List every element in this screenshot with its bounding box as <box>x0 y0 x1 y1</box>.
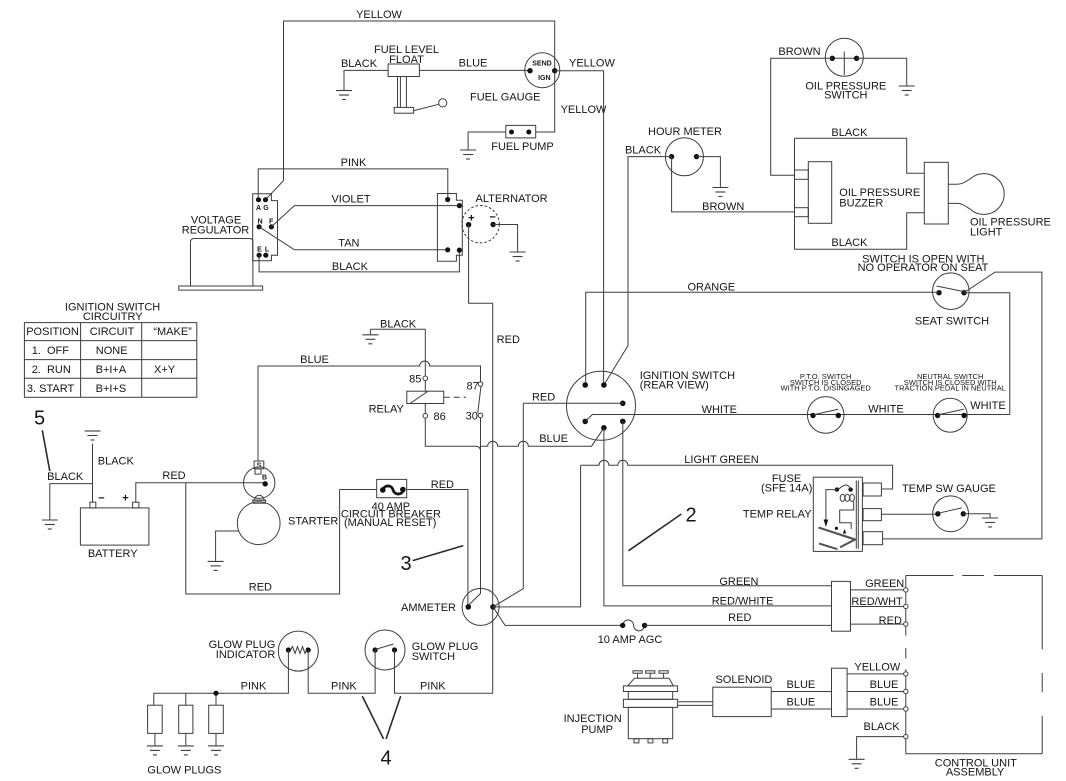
svg-text:BLACK: BLACK <box>341 58 378 70</box>
svg-text:1. OFF: 1. OFF <box>32 345 70 357</box>
svg-text:E: E <box>257 247 262 254</box>
svg-text:BLACK: BLACK <box>47 471 84 483</box>
svg-text:2. RUN: 2. RUN <box>32 364 71 376</box>
svg-text:A: A <box>256 205 261 212</box>
svg-text:POSITION: POSITION <box>26 326 79 338</box>
svg-text:BLACK: BLACK <box>332 261 369 273</box>
svg-text:−: − <box>489 212 495 224</box>
svg-text:LIGHT GREEN: LIGHT GREEN <box>684 454 758 466</box>
svg-text:WHITE: WHITE <box>970 400 1005 412</box>
svg-text:NONE: NONE <box>96 345 128 357</box>
svg-text:RELAY: RELAY <box>369 403 405 415</box>
svg-text:N: N <box>258 218 263 225</box>
svg-text:PINK: PINK <box>420 680 446 692</box>
svg-text:RED: RED <box>497 334 520 346</box>
svg-text:TAN: TAN <box>338 237 359 249</box>
svg-text:AMMETER: AMMETER <box>401 602 456 614</box>
svg-text:85: 85 <box>409 373 421 385</box>
svg-text:YELLOW: YELLOW <box>569 57 615 69</box>
svg-text:87: 87 <box>466 381 478 393</box>
svg-text:BLUE: BLUE <box>787 697 816 709</box>
svg-text:B+I+S: B+I+S <box>96 383 127 395</box>
svg-text:PINK: PINK <box>331 680 357 692</box>
svg-text:30: 30 <box>466 411 478 423</box>
svg-text:GREEN: GREEN <box>865 578 904 590</box>
svg-text:RED: RED <box>532 392 555 404</box>
svg-text:RED: RED <box>431 479 454 491</box>
svg-text:ORANGE: ORANGE <box>687 281 735 293</box>
svg-text:−: − <box>98 493 104 505</box>
svg-text:SWITCH: SWITCH <box>412 651 455 663</box>
svg-text:LIGHT: LIGHT <box>970 226 1003 238</box>
svg-text:WHITE: WHITE <box>702 404 737 416</box>
svg-text:BLUE: BLUE <box>870 679 899 691</box>
svg-text:SEND: SEND <box>532 60 551 67</box>
svg-text:INDICATOR: INDICATOR <box>216 649 276 661</box>
svg-text:2: 2 <box>685 504 696 526</box>
svg-text:BROWN: BROWN <box>778 46 820 58</box>
svg-text:RED/WHT: RED/WHT <box>851 596 903 608</box>
svg-text:G: G <box>263 205 269 212</box>
svg-text:WHITE: WHITE <box>868 404 903 416</box>
svg-text:RED: RED <box>728 612 751 624</box>
svg-text:BLUE: BLUE <box>459 58 488 70</box>
svg-text:BUZZER: BUZZER <box>839 198 883 210</box>
svg-text:BLUE: BLUE <box>787 679 816 691</box>
svg-text:PINK: PINK <box>341 157 367 169</box>
svg-text:YELLOW: YELLOW <box>356 9 402 21</box>
svg-text:IGN: IGN <box>538 75 550 82</box>
svg-text:(SFE 14A): (SFE 14A) <box>761 483 812 495</box>
svg-text:RED: RED <box>249 581 272 593</box>
svg-text:YELLOW: YELLOW <box>561 104 607 116</box>
svg-text:STARTER: STARTER <box>288 516 338 528</box>
svg-text:ALTERNATOR: ALTERNATOR <box>476 193 548 205</box>
svg-text:PINK: PINK <box>241 680 267 692</box>
svg-text:FLOAT: FLOAT <box>389 54 424 66</box>
svg-text:CIRCUIT: CIRCUIT <box>90 326 135 338</box>
svg-text:X+Y: X+Y <box>154 364 176 376</box>
svg-text:3: 3 <box>400 553 411 575</box>
svg-text:RED/WHITE: RED/WHITE <box>712 596 774 608</box>
svg-text:RED: RED <box>162 470 185 482</box>
svg-text:WITH P.T.O. DISINGAGED: WITH P.T.O. DISINGAGED <box>781 384 872 393</box>
svg-text:SEAT SWITCH: SEAT SWITCH <box>915 316 989 328</box>
svg-text:“MAKE”: “MAKE” <box>153 326 192 338</box>
svg-text:REGULATOR: REGULATOR <box>182 224 249 236</box>
svg-text:FUEL PUMP: FUEL PUMP <box>491 141 554 153</box>
svg-text:BLUE: BLUE <box>870 697 899 709</box>
svg-text:SWITCH: SWITCH <box>824 89 867 101</box>
svg-text:B: B <box>262 475 267 482</box>
svg-text:SOLENOID: SOLENOID <box>715 674 772 686</box>
svg-text:BLACK: BLACK <box>380 318 417 330</box>
svg-text:GLOW PLUGS: GLOW PLUGS <box>147 765 221 777</box>
svg-text:NO OPERATOR ON SEAT: NO OPERATOR ON SEAT <box>858 262 989 274</box>
svg-text:RED: RED <box>879 615 902 627</box>
svg-text:+: + <box>122 493 128 505</box>
svg-text:BATTERY: BATTERY <box>88 548 138 560</box>
svg-text:BLACK: BLACK <box>625 145 662 157</box>
svg-text:(REAR VIEW): (REAR VIEW) <box>640 379 709 391</box>
svg-text:86: 86 <box>434 411 446 423</box>
svg-text:TEMP RELAY: TEMP RELAY <box>743 509 812 521</box>
svg-text:10 AMP AGC: 10 AMP AGC <box>598 634 663 646</box>
svg-text:HOUR METER: HOUR METER <box>648 126 722 138</box>
svg-text:4: 4 <box>380 748 391 770</box>
svg-text:FUEL GAUGE: FUEL GAUGE <box>470 91 541 103</box>
svg-text:3. START: 3. START <box>27 383 75 395</box>
svg-text:L: L <box>265 247 270 254</box>
svg-text:CIRCUITRY: CIRCUITRY <box>83 311 143 323</box>
svg-text:ASSEMBLY: ASSEMBLY <box>946 767 1005 779</box>
svg-text:BLACK: BLACK <box>98 456 135 468</box>
svg-text:B+I+A: B+I+A <box>96 364 127 376</box>
svg-text:(MANUAL RESET): (MANUAL RESET) <box>344 517 437 529</box>
svg-text:BROWN: BROWN <box>702 201 744 213</box>
svg-text:BLACK: BLACK <box>831 127 868 139</box>
svg-text:BLUE: BLUE <box>539 433 568 445</box>
svg-text:PUMP: PUMP <box>581 724 613 736</box>
svg-text:GREEN: GREEN <box>719 576 758 588</box>
svg-text:VIOLET: VIOLET <box>331 193 370 205</box>
svg-text:BLACK: BLACK <box>864 721 901 733</box>
svg-text:YELLOW: YELLOW <box>854 662 900 674</box>
svg-text:BLACK: BLACK <box>831 237 868 249</box>
svg-text:TEMP SW GAUGE: TEMP SW GAUGE <box>902 483 996 495</box>
svg-text:BLUE: BLUE <box>300 354 329 366</box>
svg-text:5: 5 <box>34 408 45 430</box>
svg-text:TRACTION PEDAL IN NEUTRAL: TRACTION PEDAL IN NEUTRAL <box>894 384 1005 393</box>
